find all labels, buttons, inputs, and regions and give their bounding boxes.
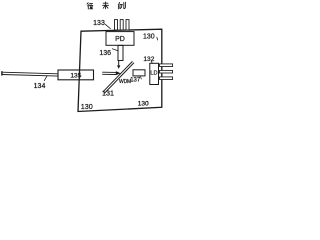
- svg-text:131: 131: [102, 88, 114, 97]
- leader line 134: [44, 76, 47, 80]
- optical fiber 134 lower line: [2, 75, 58, 77]
- PD package box: [106, 32, 134, 46]
- svg-text:132: 132: [143, 56, 154, 63]
- main housing box 130: [78, 29, 162, 111]
- light path arrow down to WDM: [118, 61, 120, 66]
- caption 例: [118, 2, 125, 9]
- svg-text:134: 134: [34, 83, 46, 90]
- caption 来: [103, 2, 109, 9]
- PD pin 1: [115, 20, 118, 30]
- lens 136: [118, 45, 123, 60]
- WDM filter plate 131: [103, 62, 132, 92]
- LD pin 2: [160, 70, 173, 73]
- svg-text:137: 137: [130, 78, 141, 84]
- comma after top 130 label: [156, 37, 159, 40]
- leader line 132: [151, 61, 152, 63]
- svg-text:130: 130: [143, 34, 155, 41]
- fiber end cap: [1, 72, 3, 75]
- svg-text:130: 130: [138, 100, 149, 107]
- lens 137: [133, 70, 145, 76]
- caption 従: [87, 3, 93, 9]
- svg-text:135: 135: [70, 73, 81, 80]
- tick after bottom right 130 label: [147, 101, 150, 103]
- svg-text:PD: PD: [115, 36, 125, 43]
- PD pin 2: [120, 20, 123, 30]
- svg-text:133: 133: [93, 20, 105, 27]
- leader line 133: [105, 24, 110, 28]
- PD pin 3: [126, 20, 129, 30]
- svg-text:LD: LD: [150, 71, 157, 77]
- light path arrow from fiber to WDM: [103, 72, 117, 74]
- tick after 137: [140, 77, 143, 79]
- leader line 136: [112, 49, 117, 51]
- svg-text:WDM: WDM: [119, 79, 131, 85]
- LD pin 1: [160, 64, 173, 67]
- optical fiber 134 upper line: [2, 72, 58, 74]
- svg-text:136: 136: [99, 50, 111, 57]
- LD package box: [150, 63, 159, 84]
- fiber ferrule box 135: [58, 70, 94, 80]
- svg-text:130: 130: [81, 102, 93, 111]
- LD pin 3: [160, 77, 173, 80]
